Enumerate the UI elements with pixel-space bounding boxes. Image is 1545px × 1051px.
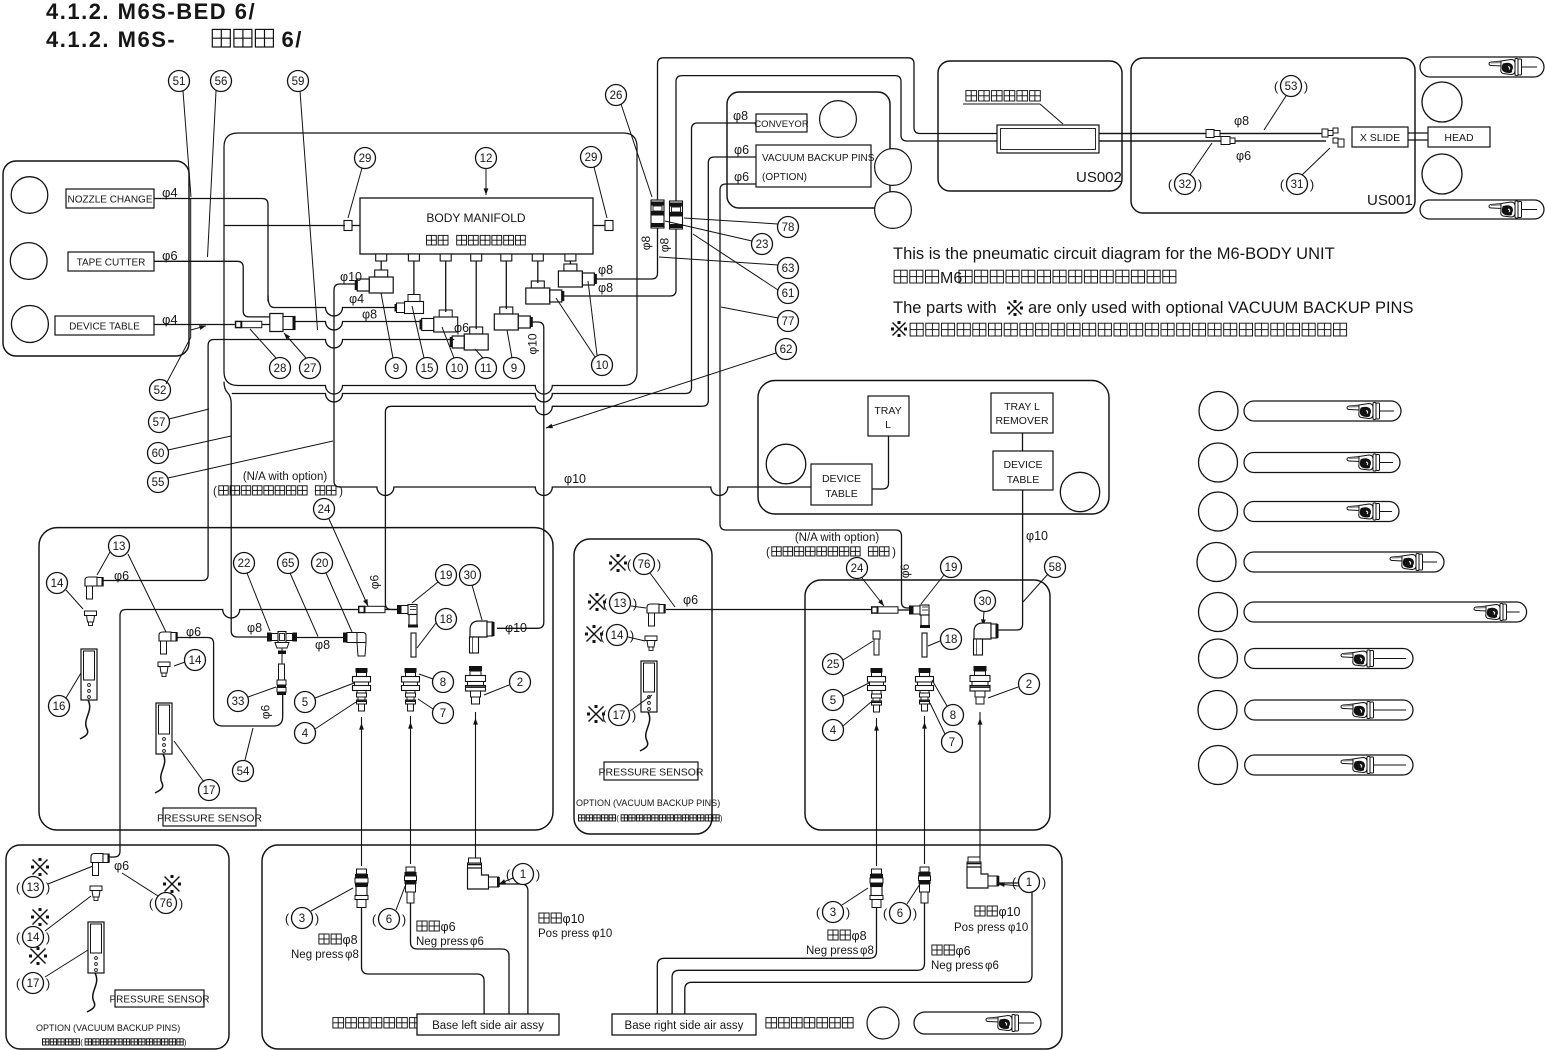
svg-text:PRESSURE SENSOR: PRESSURE SENSOR <box>109 995 209 1006</box>
svg-text:14: 14 <box>189 655 202 667</box>
svg-text:(: ( <box>627 557 632 572</box>
svg-text:(N/A with option): (N/A with option) <box>243 471 328 483</box>
svg-text:5: 5 <box>830 695 836 707</box>
wire fitting3 to base-left box <box>362 908 485 1014</box>
balloon 17 mid <box>609 705 630 726</box>
svg-text:14: 14 <box>51 578 64 590</box>
svg-text:17: 17 <box>27 978 40 990</box>
wire tray-l to device table <box>872 436 889 489</box>
leader 4 right <box>843 702 871 726</box>
balloon 1 right <box>1019 872 1040 893</box>
svg-text:φ8: φ8 <box>247 621 262 635</box>
wire phi4 device-table to fitting 28 <box>154 324 235 326</box>
leader 15 <box>412 306 424 358</box>
leader 7 right <box>930 703 945 734</box>
balloon 13 mid <box>610 593 631 614</box>
svg-text:1: 1 <box>520 869 526 881</box>
svg-text:φ8: φ8 <box>598 263 613 277</box>
svg-text:(: ( <box>883 906 888 921</box>
svg-text:76: 76 <box>638 559 651 571</box>
svg-text:): ) <box>1198 177 1202 192</box>
wire cv1 up over to US002 upper <box>658 58 1327 200</box>
svg-text:18: 18 <box>945 634 958 646</box>
svg-text:DEVICE: DEVICE <box>822 473 861 485</box>
label neg press phi8 left <box>319 934 329 944</box>
svg-text:65: 65 <box>282 558 295 570</box>
wire side port to left (box edge) <box>224 225 345 227</box>
wire phi8 jog down to tee <box>224 382 267 637</box>
svg-text:19: 19 <box>945 562 958 574</box>
right list pill 6 <box>1245 649 1413 669</box>
leader 29 right <box>594 167 607 218</box>
svg-text:Neg press: Neg press <box>931 960 984 972</box>
conveyor circle right 2 <box>875 192 912 229</box>
title line 2 <box>46 27 303 52</box>
balloon 30 right <box>975 591 996 612</box>
right list pill 1 <box>1244 401 1401 421</box>
svg-text:): ) <box>892 547 896 559</box>
wire fitting6R to base-right box <box>672 903 924 1014</box>
svg-text:OPTION (VACUUM BACKUP PINS): OPTION (VACUUM BACKUP PINS) <box>576 798 720 808</box>
svg-text:REMOVER: REMOVER <box>995 415 1049 427</box>
refmark 14 bl <box>33 910 48 925</box>
label DEVICE TABLE right <box>993 451 1053 490</box>
balloon 30 left <box>460 565 481 586</box>
svg-text:): ) <box>46 930 50 945</box>
svg-text:20: 20 <box>316 558 329 570</box>
svg-text:φ6: φ6 <box>470 936 484 948</box>
balloon 25 right <box>823 654 844 675</box>
svg-text:φ6: φ6 <box>734 170 749 184</box>
svg-text:): ) <box>630 628 634 643</box>
svg-text:54: 54 <box>237 766 250 778</box>
svg-text:φ6: φ6 <box>734 143 749 157</box>
svg-text:30: 30 <box>464 570 477 582</box>
svg-text:Base right side air assy: Base right side air assy <box>625 1020 744 1032</box>
svg-text:): ) <box>1310 177 1314 192</box>
svg-text:2: 2 <box>517 677 523 689</box>
refmark 76 mid <box>611 556 626 571</box>
label VACUUM BACKUP PINS OPTION box <box>756 145 871 187</box>
right list pill 7 <box>1245 700 1413 720</box>
svg-text:VACUUM BACKUP PINS: VACUUM BACKUP PINS <box>762 153 875 164</box>
wire col2 left down with arrow <box>475 712 477 858</box>
svg-text:18: 18 <box>440 614 453 626</box>
balloon 12 <box>476 148 497 169</box>
leader 17 bl <box>45 950 88 977</box>
balloon 65 <box>278 553 299 574</box>
leader 8 left <box>419 674 433 679</box>
svg-text:φ6: φ6 <box>898 563 912 578</box>
fitting 2 right <box>974 666 987 671</box>
balloon 13 bl <box>23 877 44 898</box>
svg-text:φ10: φ10 <box>1026 529 1048 543</box>
label PRESSURE SENSOR left group <box>163 808 256 826</box>
svg-text:(: ( <box>506 867 511 882</box>
svg-text:(: ( <box>16 976 21 991</box>
balloon 20 <box>312 553 333 574</box>
balloon 3 right <box>823 902 844 923</box>
right list circle 2 <box>1199 443 1238 482</box>
svg-text:9: 9 <box>511 363 517 375</box>
wire xslide to head double <box>1408 132 1428 134</box>
svg-text:): ) <box>657 557 661 572</box>
fitting 10 elbow port3 <box>439 310 452 317</box>
fitting 15 small elbow <box>408 295 420 302</box>
leader 55 <box>168 441 333 478</box>
svg-text:φ6: φ6 <box>441 920 456 934</box>
right list pill 3 <box>1244 502 1399 522</box>
svg-text:Pos press: Pos press <box>538 928 589 940</box>
svg-text:13: 13 <box>27 882 40 894</box>
leader 78 <box>684 218 778 224</box>
leader 14b <box>174 662 185 666</box>
svg-text:59: 59 <box>292 76 305 88</box>
svg-text:φ6: φ6 <box>1236 149 1251 163</box>
left unit circle 3 <box>11 306 48 343</box>
svg-text:19: 19 <box>440 570 453 582</box>
balloon 9 a <box>386 358 407 379</box>
balloon 7 right <box>942 732 963 753</box>
leader 6 right <box>907 884 920 904</box>
refmark 14 mid <box>587 627 602 642</box>
refmark 13 bl <box>33 860 48 875</box>
label TRAY L REMOVER <box>991 393 1053 433</box>
leader 76 mid <box>650 573 675 607</box>
svg-text:φ4: φ4 <box>349 292 364 306</box>
fitting elbow 19 left <box>397 605 401 614</box>
leader 1 right <box>998 884 1019 886</box>
svg-text:): ) <box>315 911 319 926</box>
svg-text:are only used with optional VA: are only used with optional VACUUM BACKU… <box>1028 299 1413 317</box>
balloon 7 left <box>433 703 454 724</box>
svg-text:φ6: φ6 <box>956 944 971 958</box>
conveyor group box <box>727 92 890 208</box>
svg-text:φ10: φ10 <box>999 905 1021 919</box>
label flat cable <box>966 91 977 101</box>
leader 5 right <box>843 683 869 696</box>
svg-text:(: ( <box>1280 177 1285 192</box>
svg-text:TABLE: TABLE <box>825 488 857 500</box>
fitting 1 left elbow <box>469 858 481 863</box>
US002 group box <box>938 61 1122 191</box>
svg-text:(: ( <box>1274 79 1279 94</box>
left unit circle 1 <box>11 177 48 214</box>
leader 59 <box>300 91 318 330</box>
svg-text:DEVICE: DEVICE <box>1003 459 1042 471</box>
manifold bottom stubs <box>376 254 387 261</box>
svg-text:(: ( <box>372 912 377 927</box>
svg-text:φ8: φ8 <box>343 933 358 947</box>
leader 54 <box>245 728 253 760</box>
svg-text:17: 17 <box>613 710 626 722</box>
leader 4 left <box>315 702 356 729</box>
wire cable to xslide upper <box>1099 133 1326 135</box>
label X SLIDE <box>1352 127 1408 147</box>
leader 13b <box>128 554 166 632</box>
svg-text:): ) <box>846 905 850 920</box>
balloon 2 left <box>510 672 531 693</box>
leader 61 <box>693 234 778 290</box>
connector pair mid us001 <box>1206 130 1214 138</box>
svg-text:6/: 6/ <box>282 27 303 52</box>
leader 76 bl <box>122 873 158 896</box>
wire phi4 nozzle-change to fitting 15 <box>154 199 268 302</box>
svg-text:(: ( <box>603 596 608 611</box>
balloon 54 <box>233 761 254 782</box>
svg-text:(: ( <box>285 911 290 926</box>
wire port2 down <box>413 261 415 296</box>
svg-text:NOZZLE CHANGE: NOZZLE CHANGE <box>67 195 152 206</box>
fitting 4 right <box>872 694 882 698</box>
fitting elbow 30 left <box>470 621 487 637</box>
sensor 17 left <box>156 703 172 754</box>
fitting 3 left <box>357 869 367 874</box>
svg-text:φ6: φ6 <box>368 574 382 589</box>
svg-text:TRAY: TRAY <box>874 405 901 417</box>
bottom-left option group box <box>6 845 229 1049</box>
label pos press phi10 left <box>539 913 549 923</box>
balloon 8 left <box>433 672 454 693</box>
svg-text:24: 24 <box>851 563 864 575</box>
svg-text:27: 27 <box>304 363 317 375</box>
balloon 1 left <box>513 864 534 885</box>
svg-text:8: 8 <box>950 710 956 722</box>
fitting plug 14a <box>85 611 97 616</box>
tray group circle left <box>766 444 806 484</box>
check valve 1 <box>651 200 664 228</box>
svg-text:6: 6 <box>897 908 903 920</box>
fitting 1 right elbow <box>968 857 980 862</box>
leader 14 bl <box>45 896 91 931</box>
svg-text:51: 51 <box>173 76 186 88</box>
wire col7 left down with arrow <box>410 716 412 864</box>
svg-text:(: ( <box>149 896 154 911</box>
text paragraph 2 jp <box>893 323 906 336</box>
svg-text:φ10: φ10 <box>340 270 362 284</box>
wire port4 down <box>475 261 477 329</box>
balloon 10 a <box>447 358 468 379</box>
svg-text:φ8: φ8 <box>860 945 874 957</box>
fitting 4 left <box>357 693 367 697</box>
balloon 26 <box>606 85 627 106</box>
balloon 5 right <box>823 690 844 711</box>
flat cable rect <box>997 125 1099 153</box>
svg-text:φ8: φ8 <box>852 929 867 943</box>
fitting elbow port7 <box>564 264 577 271</box>
leader 3 right <box>842 888 868 905</box>
svg-text:(: ( <box>1168 177 1173 192</box>
leader 65 <box>290 573 318 637</box>
leader 13 mid <box>631 606 646 608</box>
svg-text:(: ( <box>1012 875 1017 890</box>
balloon 9 b <box>504 358 525 379</box>
svg-text:14: 14 <box>611 630 624 642</box>
bottom base group box <box>262 845 1062 1049</box>
bottom circle <box>867 1007 899 1039</box>
svg-text:57: 57 <box>153 417 166 429</box>
svg-text:31: 31 <box>1291 179 1304 191</box>
wire cable to xslide lower <box>1099 140 1326 142</box>
balloon 11 <box>476 358 497 379</box>
svg-text:The parts with: The parts with <box>893 299 997 317</box>
leader 6 left <box>396 884 406 910</box>
tee fitting 22/65 <box>281 646 283 664</box>
balloon 13 left <box>109 536 130 557</box>
refmark 13 mid <box>590 595 605 610</box>
leader 31 <box>1302 148 1330 175</box>
svg-text:): ) <box>633 596 637 611</box>
svg-text:φ4: φ4 <box>162 185 178 200</box>
svg-text:23: 23 <box>756 239 769 251</box>
US001 group box <box>1131 58 1415 213</box>
wire phi10 port5 to elbow 30 <box>497 322 544 628</box>
check valve 2 <box>670 201 683 229</box>
wire 24 to elbow19 <box>385 609 397 611</box>
svg-text:PRESSURE SENSOR: PRESSURE SENSOR <box>157 813 262 825</box>
fitting elbow 13b <box>159 632 171 641</box>
balloon 4 right <box>823 720 844 741</box>
wire tee to elbow 20 <box>297 637 345 639</box>
svg-text:4: 4 <box>830 725 837 737</box>
manifold right side port square <box>593 225 605 227</box>
balloon 53 <box>1281 76 1302 97</box>
wire fitting3R to base-right box <box>657 908 876 1014</box>
svg-text:CONVEYOR: CONVEYOR <box>754 119 809 130</box>
balloon 29 right <box>581 147 602 168</box>
wire fitting6 to base-left box <box>411 903 510 1014</box>
balloon 24 left <box>314 499 335 520</box>
svg-text:13: 13 <box>113 541 126 553</box>
manifold outer group box A <box>224 133 637 394</box>
label NOZZLE CHANGE <box>66 189 154 208</box>
leader 22 <box>247 573 270 631</box>
svg-text:58: 58 <box>1049 562 1062 574</box>
wire cv2 up over to US002 lower <box>676 76 1326 201</box>
svg-text:TAPE CUTTER: TAPE CUTTER <box>77 258 146 269</box>
svg-text:4.1.2. M6S-: 4.1.2. M6S- <box>46 27 176 52</box>
wire fitting1R to base-right box <box>685 883 1032 1014</box>
left pressure-sensor group box <box>39 528 553 830</box>
wire col7 right down with arrow <box>924 716 926 864</box>
balloon 77 <box>778 311 799 332</box>
balloon 58 <box>1045 557 1066 578</box>
leader 23 <box>665 221 752 241</box>
leader 58 <box>1023 574 1048 602</box>
svg-text:15: 15 <box>421 363 434 375</box>
wire 28 to 27 <box>262 324 270 326</box>
balloon 5 left <box>295 692 316 713</box>
tray-l group box <box>758 381 1109 515</box>
svg-text:28: 28 <box>274 363 287 375</box>
label pos press phi10 right <box>975 906 985 916</box>
leader 1 left <box>499 878 513 884</box>
label neg press phi6 right <box>932 945 942 955</box>
svg-text:78: 78 <box>782 222 795 234</box>
balloon 29 left <box>355 148 376 169</box>
balloon 51 <box>169 71 190 92</box>
label base right jp <box>766 1018 777 1028</box>
svg-text:63: 63 <box>782 263 795 275</box>
wire phi6 option riser to fitting24 left <box>109 610 126 858</box>
wire 24R to elbow19R <box>898 609 909 611</box>
svg-text:φ6: φ6 <box>259 704 273 719</box>
svg-text:24: 24 <box>318 504 331 516</box>
label PRESSURE SENSOR bl <box>115 990 204 1007</box>
svg-text:): ) <box>913 906 917 921</box>
manifold left side port square <box>352 225 360 227</box>
wire phi8 conveyor line <box>686 123 757 394</box>
balloon 32 <box>1175 174 1196 195</box>
right list circle 7 <box>1198 691 1237 730</box>
svg-text:φ6: φ6 <box>114 569 129 583</box>
leader 63 <box>659 257 778 265</box>
wire fitting1 to base-left box <box>499 884 528 1014</box>
svg-text:φ6: φ6 <box>683 593 698 607</box>
leader 28 <box>250 329 276 358</box>
svg-text:7: 7 <box>949 737 955 749</box>
fitting 2 left <box>469 666 482 671</box>
svg-text:): ) <box>184 1038 187 1047</box>
balloon 14 mid <box>607 625 628 646</box>
conveyor circle right 1 <box>875 149 912 186</box>
leader 12 arrow <box>485 168 487 195</box>
leader 17 left <box>174 741 204 782</box>
svg-text:): ) <box>536 867 540 882</box>
fitting elbow 30 right <box>974 623 991 639</box>
balloon 18 left <box>436 609 457 630</box>
svg-text:φ8: φ8 <box>639 235 653 250</box>
wire phi10 port1 elbow to device table left <box>334 284 356 487</box>
wire col4 right down with arrow <box>876 718 878 866</box>
svg-text:φ8: φ8 <box>733 109 748 123</box>
svg-text:(: ( <box>616 814 619 823</box>
svg-text:): ) <box>179 896 183 911</box>
wire port7 down <box>569 261 571 264</box>
leader 14a <box>66 590 83 609</box>
right list circle 6 <box>1199 639 1238 678</box>
balloon 52 <box>150 380 171 401</box>
bottom pill with hand <box>914 1012 1041 1034</box>
svg-text:1: 1 <box>1026 877 1032 889</box>
refmark 76 bl <box>165 877 180 892</box>
fitting 7 left <box>406 693 416 697</box>
svg-text:PRESSURE SENSOR: PRESSURE SENSOR <box>598 767 703 779</box>
right list pill 2 <box>1244 453 1400 473</box>
svg-text:14: 14 <box>27 932 40 944</box>
sensor 16 <box>81 649 97 700</box>
leader 10a <box>442 327 454 358</box>
label TAPE CUTTER <box>68 252 154 271</box>
svg-text:φ8: φ8 <box>658 237 672 252</box>
svg-text:(: ( <box>600 628 605 643</box>
svg-text:56: 56 <box>215 76 228 88</box>
svg-text:): ) <box>720 814 723 823</box>
balloon 19 left <box>436 565 457 586</box>
leader 18 right <box>928 641 940 646</box>
wire col2 right down with arrow <box>979 712 981 858</box>
svg-text:HEAD: HEAD <box>1444 132 1474 144</box>
svg-text:8: 8 <box>440 677 446 689</box>
svg-text:13: 13 <box>614 598 627 610</box>
svg-text:29: 29 <box>359 153 372 165</box>
leader 57 <box>169 409 209 419</box>
svg-text:Pos press: Pos press <box>954 922 1005 934</box>
wire port6 down <box>537 261 539 283</box>
fitting elbow port6 <box>531 281 544 288</box>
leader 18 left <box>417 623 436 648</box>
leader 14 mid <box>628 637 645 641</box>
